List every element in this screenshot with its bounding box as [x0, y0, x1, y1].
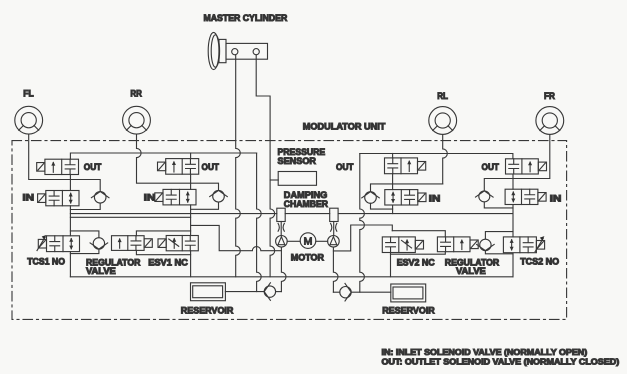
svg-text:MOTOR: MOTOR: [291, 252, 324, 263]
wire damping right to pump: [333, 222, 335, 236]
wire CV5 outlet: [276, 291, 282, 293]
check valve CV1: [91, 192, 109, 204]
check valve REG1: [90, 238, 108, 249]
svg-text:OUT: OUTLET SOLENOID VALVE (NO: OUT: OUTLET SOLENOID VALVE (NORMALLY CLO…: [382, 356, 620, 366]
svg-text:ESV2 NC: ESV2 NC: [397, 257, 435, 268]
check valve CV3: [362, 192, 380, 204]
wire ESV2 pipe down: [390, 253, 392, 277]
check valve CV6: [340, 283, 351, 301]
wire CV3 bottom link: [371, 203, 393, 209]
wire FL stem: [29, 134, 101, 191]
motor M1: [300, 233, 316, 249]
wire reservoir left inlet: [225, 291, 264, 293]
svg-text:MODULATOR UNIT: MODULATOR UNIT: [303, 121, 386, 132]
wire REG2 bottom link: [485, 251, 513, 254]
svg-text:IN: IN: [550, 194, 562, 205]
svg-text:VALVE: VALVE: [86, 266, 116, 277]
wire rail mid: [70, 213, 276, 215]
svg-text:TCS2 NO: TCS2 NO: [520, 256, 559, 267]
solenoid valve ESV2: [382, 237, 423, 253]
wire drop left: [257, 153, 262, 292]
wire TCS row rail B2: [485, 232, 513, 239]
wire OUT1 to IN1: [69, 175, 71, 191]
solenoid valve IN3: [385, 190, 426, 205]
wire motor to pump right: [316, 240, 328, 242]
solenoid valve OUT3: [385, 158, 426, 174]
check valve REG2: [477, 239, 495, 250]
wire MC2 line: [256, 55, 275, 277]
wire rail mid c: [338, 213, 513, 215]
check valve CV4: [476, 191, 494, 202]
check valve CV5: [264, 283, 275, 301]
svg-text:IN: IN: [429, 194, 441, 205]
wire TCS1 pipe down: [69, 252, 71, 277]
wire rail mid b: [285, 213, 330, 215]
solenoid valve OUT1: [37, 159, 79, 174]
wire G2 pipe: [190, 174, 192, 277]
wire pump right line: [333, 247, 338, 292]
wire bottom rail: [70, 276, 513, 278]
svg-text:VALVE: VALVE: [456, 266, 486, 277]
wheel FL: [15, 106, 43, 134]
wire top rail right: [360, 154, 513, 158]
wire suction right: [333, 225, 392, 251]
svg-text:RESERVOIR: RESERVOIR: [382, 305, 435, 316]
wire damping left to pump: [280, 222, 282, 236]
regulator valve V2: [437, 237, 478, 252]
svg-text:OUT: OUT: [482, 162, 500, 173]
wire OUT3 top stub: [392, 154, 394, 158]
wire pump left line: [281, 247, 286, 292]
svg-text:RESERVOIR: RESERVOIR: [181, 305, 234, 316]
orifice right: [331, 223, 337, 231]
wire CV2 bottom link: [191, 202, 219, 209]
svg-text:CHAMBER: CHAMBER: [284, 199, 328, 210]
wheel FR: [536, 107, 564, 135]
wire REG1 bottom link: [70, 249, 99, 254]
wire TCS row rail A: [70, 231, 99, 238]
wire pump left to motor: [287, 240, 300, 242]
wire G4 pipe: [512, 174, 514, 277]
wire FR stem: [484, 134, 550, 190]
orifice left: [278, 223, 284, 231]
modulator unit dashed border: [12, 141, 567, 320]
solenoid valve OUT2: [158, 159, 199, 175]
solenoid valve OUT4: [506, 159, 547, 174]
wire V1 bottom link: [136, 250, 190, 254]
svg-text:RR: RR: [130, 89, 142, 100]
svg-text:TCS1 NO: TCS1 NO: [27, 256, 65, 267]
check valve CV2: [210, 190, 228, 202]
svg-text:IN: INLET SOLENOID VALVE (NORM: IN: INLET SOLENOID VALVE (NORMALLY OPEN): [382, 347, 588, 357]
reservoir left: [191, 283, 226, 301]
wire reservoir right inlet: [351, 291, 391, 293]
svg-text:FL: FL: [23, 89, 34, 100]
wire TCS row rail B: [136, 231, 190, 236]
solenoid valve IN2: [155, 189, 196, 205]
svg-text:SENSOR: SENSOR: [278, 156, 317, 167]
wire G3 pipe: [392, 174, 394, 214]
wire TCS row rail A2: [392, 231, 445, 237]
solenoid valve IN4: [505, 189, 546, 204]
wire RR stem: [137, 134, 219, 190]
pressure sensor: [278, 172, 316, 186]
wheel RR: [123, 106, 151, 134]
regulator valve V1: [112, 236, 153, 251]
wire CV1 bottom link: [70, 203, 100, 209]
svg-text:M: M: [304, 235, 313, 247]
master cylinder MC1: [208, 32, 267, 69]
wire rail low: [70, 216, 190, 218]
svg-text:OUT: OUT: [84, 162, 102, 173]
wheel RL: [429, 107, 457, 135]
pump right: [328, 236, 340, 248]
wire suction left: [191, 225, 282, 250]
solenoid valve ESV1: [158, 236, 198, 251]
damping chamber right: [330, 208, 338, 221]
svg-text:MASTER CYLINDER: MASTER CYLINDER: [204, 13, 288, 24]
wire OUT2 top stub: [190, 153, 192, 159]
wire drop right: [360, 154, 365, 293]
wire top rail left: [70, 153, 256, 159]
wire MC1 line: [236, 55, 241, 277]
wire pressure sensor tap: [270, 179, 278, 181]
wire RL branch: [371, 184, 443, 192]
svg-text:OUT: OUT: [202, 162, 220, 173]
svg-text:ESV1 NC: ESV1 NC: [148, 257, 188, 268]
wire V2 bottom link: [391, 252, 446, 255]
solenoid valve IN1: [38, 191, 79, 206]
pump left: [276, 236, 288, 248]
wire RL stem: [443, 134, 448, 184]
reservoir right: [391, 284, 426, 302]
svg-text:RL: RL: [437, 91, 448, 102]
wire CV6 outlet: [333, 291, 339, 293]
solenoid valve TCS1: [37, 235, 80, 252]
wire G1 pipe down: [69, 206, 71, 236]
solenoid valve TCS2: [503, 236, 544, 253]
svg-text:FR: FR: [544, 91, 555, 102]
wire CV4 bottom link: [484, 202, 513, 208]
svg-text:IN: IN: [23, 192, 35, 203]
svg-text:IN: IN: [144, 192, 156, 203]
svg-text:OUT: OUT: [336, 162, 354, 173]
damping chamber left: [277, 208, 285, 221]
